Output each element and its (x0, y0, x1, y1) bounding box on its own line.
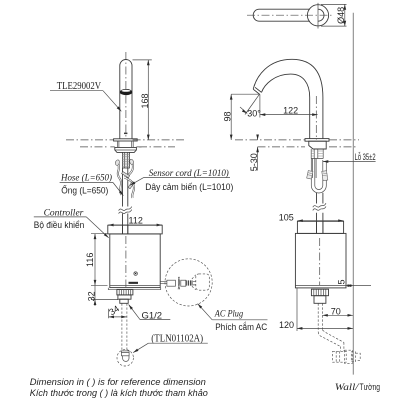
svg-text:Bộ điều khiển: Bộ điều khiển (34, 220, 85, 231)
svg-text:5-30: 5-30 (249, 153, 259, 171)
svg-text:Ống (L=650): Ống (L=650) (61, 185, 108, 197)
svg-text:G1/2: G1/2 (142, 311, 163, 322)
svg-text:112: 112 (129, 216, 143, 226)
svg-text:Lỗ 35±2: Lỗ 35±2 (355, 152, 376, 163)
svg-text:Dây cảm biến (L=1010): Dây cảm biến (L=1010) (145, 182, 233, 193)
svg-text:Phích cắm AC: Phích cắm AC (215, 322, 267, 333)
svg-text:Kích thước trong ( ) là kích t: Kích thước trong ( ) là kích thước tham … (30, 388, 208, 398)
svg-text:168: 168 (140, 93, 150, 108)
svg-text:70: 70 (331, 306, 341, 316)
svg-text:30°: 30° (247, 109, 261, 119)
svg-text:Hose (L=650): Hose (L=650) (60, 172, 112, 183)
svg-text:Tường: Tường (360, 382, 381, 393)
svg-text:116: 116 (85, 253, 95, 267)
svg-text:AC Plug: AC Plug (214, 310, 243, 320)
svg-text:98: 98 (223, 111, 233, 121)
svg-text:105: 105 (279, 213, 294, 223)
svg-text:(TLN01102A): (TLN01102A) (151, 333, 203, 344)
svg-text:120: 120 (279, 320, 294, 330)
svg-text:Ø48: Ø48 (336, 7, 346, 24)
svg-text:5: 5 (337, 279, 347, 284)
svg-text:Dimension in ( ) is for refere: Dimension in ( ) is for reference dimens… (30, 377, 206, 387)
svg-text:32: 32 (86, 291, 96, 301)
svg-text:122: 122 (283, 105, 298, 115)
svg-text:Wall/: Wall/ (335, 383, 360, 393)
